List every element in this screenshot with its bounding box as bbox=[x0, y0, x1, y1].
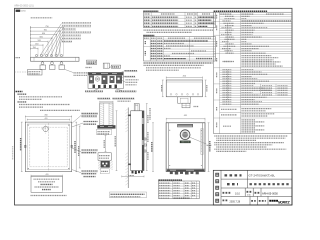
title row2: item name bbox=[227, 183, 238, 185]
svg-text:240: 240 bbox=[135, 105, 138, 107]
rear view right dimensions bbox=[75, 122, 77, 172]
svg-text:600: 600 bbox=[40, 36, 43, 38]
title row3: scale unit number bbox=[223, 192, 231, 194]
svg-text:0050: 0050 bbox=[21, 11, 27, 13]
leader from exhaust bbox=[190, 137, 207, 144]
rear view inner panel bbox=[27, 124, 70, 170]
rear exhaust circle bbox=[43, 126, 48, 131]
title block vertical strip bbox=[220, 170, 222, 205]
svg-text:150: 150 bbox=[33, 47, 36, 49]
spec table header bbox=[214, 10, 268, 12]
rear vertical centerline bbox=[48, 123, 50, 171]
Noritz logo bbox=[269, 200, 271, 202]
bracket label upper right bbox=[82, 112, 99, 114]
bottom seam and dark band bbox=[166, 167, 205, 169]
product table header bbox=[143, 10, 158, 12]
svg-text:2005.7.28: 2005.7.28 bbox=[230, 201, 241, 204]
top vent grille bbox=[177, 124, 193, 127]
spec table group labels bbox=[216, 15, 218, 19]
drawing number label top-left bbox=[16, 10, 21, 12]
side dims bbox=[146, 104, 148, 171]
installation diagram title bbox=[31, 17, 53, 19]
svg-text:650: 650 bbox=[42, 33, 45, 35]
bracket label bottom right bbox=[82, 170, 98, 172]
wall vertical dim bbox=[105, 136, 107, 152]
margin vertical note bbox=[12, 146, 14, 160]
pipe fitting boxes under top view bbox=[40, 65, 46, 70]
section bottom labels bbox=[85, 90, 103, 92]
rear view outer panel bbox=[25, 122, 71, 172]
title block outer bbox=[213, 170, 292, 205]
upper wall duct detail bbox=[100, 103, 113, 125]
remote table notes bbox=[144, 62, 213, 64]
leader lines from labels to unit bbox=[40, 24, 62, 56]
upper duct labels bbox=[97, 129, 112, 134]
dimension ladder bbox=[30, 26, 32, 57]
svg-text:ARH-05-0050: ARH-05-0050 bbox=[262, 192, 278, 196]
product table note bbox=[144, 29, 214, 31]
pipe cover note label right bbox=[74, 72, 89, 74]
rear inner dashed rectangle bbox=[30, 126, 67, 128]
svg-text:NORITZ: NORITZ bbox=[278, 201, 291, 205]
side view unit body bbox=[131, 111, 144, 171]
NORITZ badge bbox=[180, 141, 191, 144]
unit top view outline bbox=[166, 80, 202, 97]
gas connection table bbox=[158, 181, 199, 199]
note box left of top view bbox=[28, 70, 43, 76]
spec table accessories cell bbox=[223, 125, 231, 127]
top view side dims bbox=[162, 80, 164, 97]
upper duct dark band bbox=[97, 125, 115, 128]
section internal parts bbox=[89, 76, 94, 84]
unit top view band bbox=[31, 57, 80, 61]
dashed boundary line bbox=[15, 71, 32, 73]
lower connection circles bbox=[42, 60, 44, 63]
svg-text:700: 700 bbox=[44, 29, 47, 31]
rear view left dimension bbox=[21, 122, 23, 172]
remote table bbox=[144, 37, 216, 61]
exhaust fan circle bbox=[180, 130, 190, 140]
bottom anchor hole box bbox=[31, 176, 63, 192]
spec table outer bbox=[214, 12, 292, 133]
screw dots bbox=[27, 124, 30, 127]
section bottom pipe stubs bbox=[93, 85, 96, 89]
pipe cover section view outline bbox=[88, 72, 124, 88]
notes text block bbox=[16, 91, 23, 93]
small label left bbox=[86, 67, 92, 69]
part label stack bbox=[62, 22, 91, 24]
spec table sub columns bbox=[227, 24, 229, 54]
flue outlet boxes bbox=[178, 97, 191, 103]
bottom label line bbox=[31, 195, 67, 197]
bracket label lower right bbox=[82, 149, 98, 151]
title row4: date and logo bbox=[223, 199, 229, 201]
front panel outline bbox=[166, 123, 205, 172]
title row1: product name bbox=[225, 174, 242, 176]
side mounting notches bbox=[25, 145, 26, 147]
side pipe stubs right bbox=[144, 138, 146, 140]
wall line bbox=[127, 108, 129, 189]
side view header labels bbox=[98, 97, 111, 99]
svg-text:GT-2470SAW(T)-BL: GT-2470SAW(T)-BL bbox=[249, 174, 276, 178]
remote table header bbox=[143, 35, 154, 37]
spec table cell texts bbox=[220, 13, 232, 15]
lower wall duct detail bbox=[98, 153, 111, 160]
svg-text:ARH-05-0050 (1/1): ARH-05-0050 (1/1) bbox=[14, 5, 34, 8]
exhaust change label box bbox=[87, 60, 97, 64]
svg-text:1/10: 1/10 bbox=[235, 192, 240, 195]
rear view dimension 420 bbox=[27, 119, 70, 121]
svg-text:mm: mm bbox=[247, 194, 251, 196]
mounting brackets to wall bbox=[128, 115, 131, 117]
gas connection table header bbox=[158, 179, 182, 181]
svg-text:520: 520 bbox=[38, 40, 41, 42]
spec table safety rows bbox=[221, 108, 237, 110]
spec table row lines bbox=[220, 14, 292, 16]
svg-text:450: 450 bbox=[35, 43, 38, 45]
product table bbox=[144, 12, 216, 27]
bottom pipe stubs bbox=[170, 172, 173, 175]
side bottom stubs bbox=[132, 171, 134, 174]
panel screw dots bbox=[168, 129, 171, 132]
section top dark band bbox=[88, 73, 123, 76]
front view side dims bbox=[152, 123, 154, 172]
side exhaust pipe bbox=[134, 104, 139, 111]
upper exhaust label box bbox=[111, 65, 120, 68]
sheet border frame bbox=[15, 8, 293, 205]
spec table tall cell performance bbox=[242, 55, 272, 57]
model sticker right bbox=[201, 129, 203, 155]
svg-text:420: 420 bbox=[45, 118, 48, 120]
title block row lines bbox=[221, 178, 292, 180]
spec table group separators bbox=[214, 20, 220, 22]
bracket label 2 bbox=[84, 121, 98, 123]
side bottom note box bbox=[110, 192, 147, 198]
section right labels bbox=[125, 70, 138, 72]
spec table footnotes bbox=[214, 135, 287, 137]
duct box bbox=[103, 63, 109, 68]
svg-text:750: 750 bbox=[45, 26, 48, 28]
